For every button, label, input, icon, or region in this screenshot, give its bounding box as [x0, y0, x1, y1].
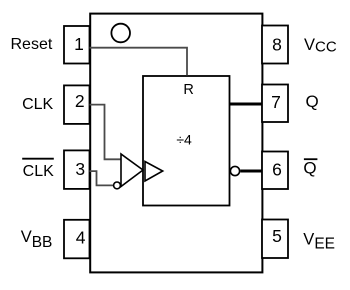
Qbar overline	[304, 158, 318, 160]
svg-text:3: 3	[75, 159, 85, 179]
wire pin3 to buffer inverting input	[90, 171, 114, 185]
svg-text:7: 7	[271, 92, 281, 112]
svg-text:8: 8	[272, 34, 282, 54]
svg-text:6: 6	[272, 159, 282, 179]
svg-text:Q: Q	[303, 159, 316, 178]
svg-text:1: 1	[74, 34, 84, 54]
IC body U1 (8-pin package outline)	[90, 14, 262, 273]
wire pin2 to buffer noninverting input	[90, 105, 121, 160]
svg-text:R: R	[183, 82, 193, 98]
wire Qbar output to pin 6	[240, 170, 262, 173]
input buffer amplifier triangle	[121, 154, 143, 187]
Qbar output bubble	[230, 166, 239, 175]
svg-text:VCC: VCC	[304, 36, 337, 56]
internal buffer triangle	[145, 162, 163, 182]
pin 6 box	[262, 152, 288, 190]
pin 8 box	[262, 26, 288, 64]
svg-text:CLK: CLK	[22, 96, 53, 113]
pin 5 box	[262, 220, 288, 259]
pin 2 box	[64, 85, 90, 124]
pin 1 orientation circle	[111, 24, 130, 43]
pin 1 box	[64, 26, 90, 64]
divide-by-4 counter block	[143, 76, 230, 206]
pin 7 box	[262, 85, 288, 123]
svg-text:Q: Q	[306, 92, 319, 111]
svg-text:4: 4	[76, 227, 86, 247]
svg-text:CLK: CLK	[23, 163, 54, 180]
svg-text:VEE: VEE	[303, 230, 335, 252]
pin 4 box	[64, 220, 90, 258]
CLKbar overline	[22, 158, 54, 160]
svg-text:Reset: Reset	[11, 36, 53, 53]
pin 3 box	[64, 150, 90, 189]
inverting input bubble	[114, 182, 121, 189]
svg-text:VBB: VBB	[21, 228, 53, 251]
svg-text:2: 2	[75, 91, 85, 111]
wire pin1 to R input	[90, 48, 188, 76]
wire Q output to pin 7	[230, 103, 263, 106]
svg-text:5: 5	[272, 226, 282, 246]
svg-text:÷4: ÷4	[176, 131, 192, 147]
